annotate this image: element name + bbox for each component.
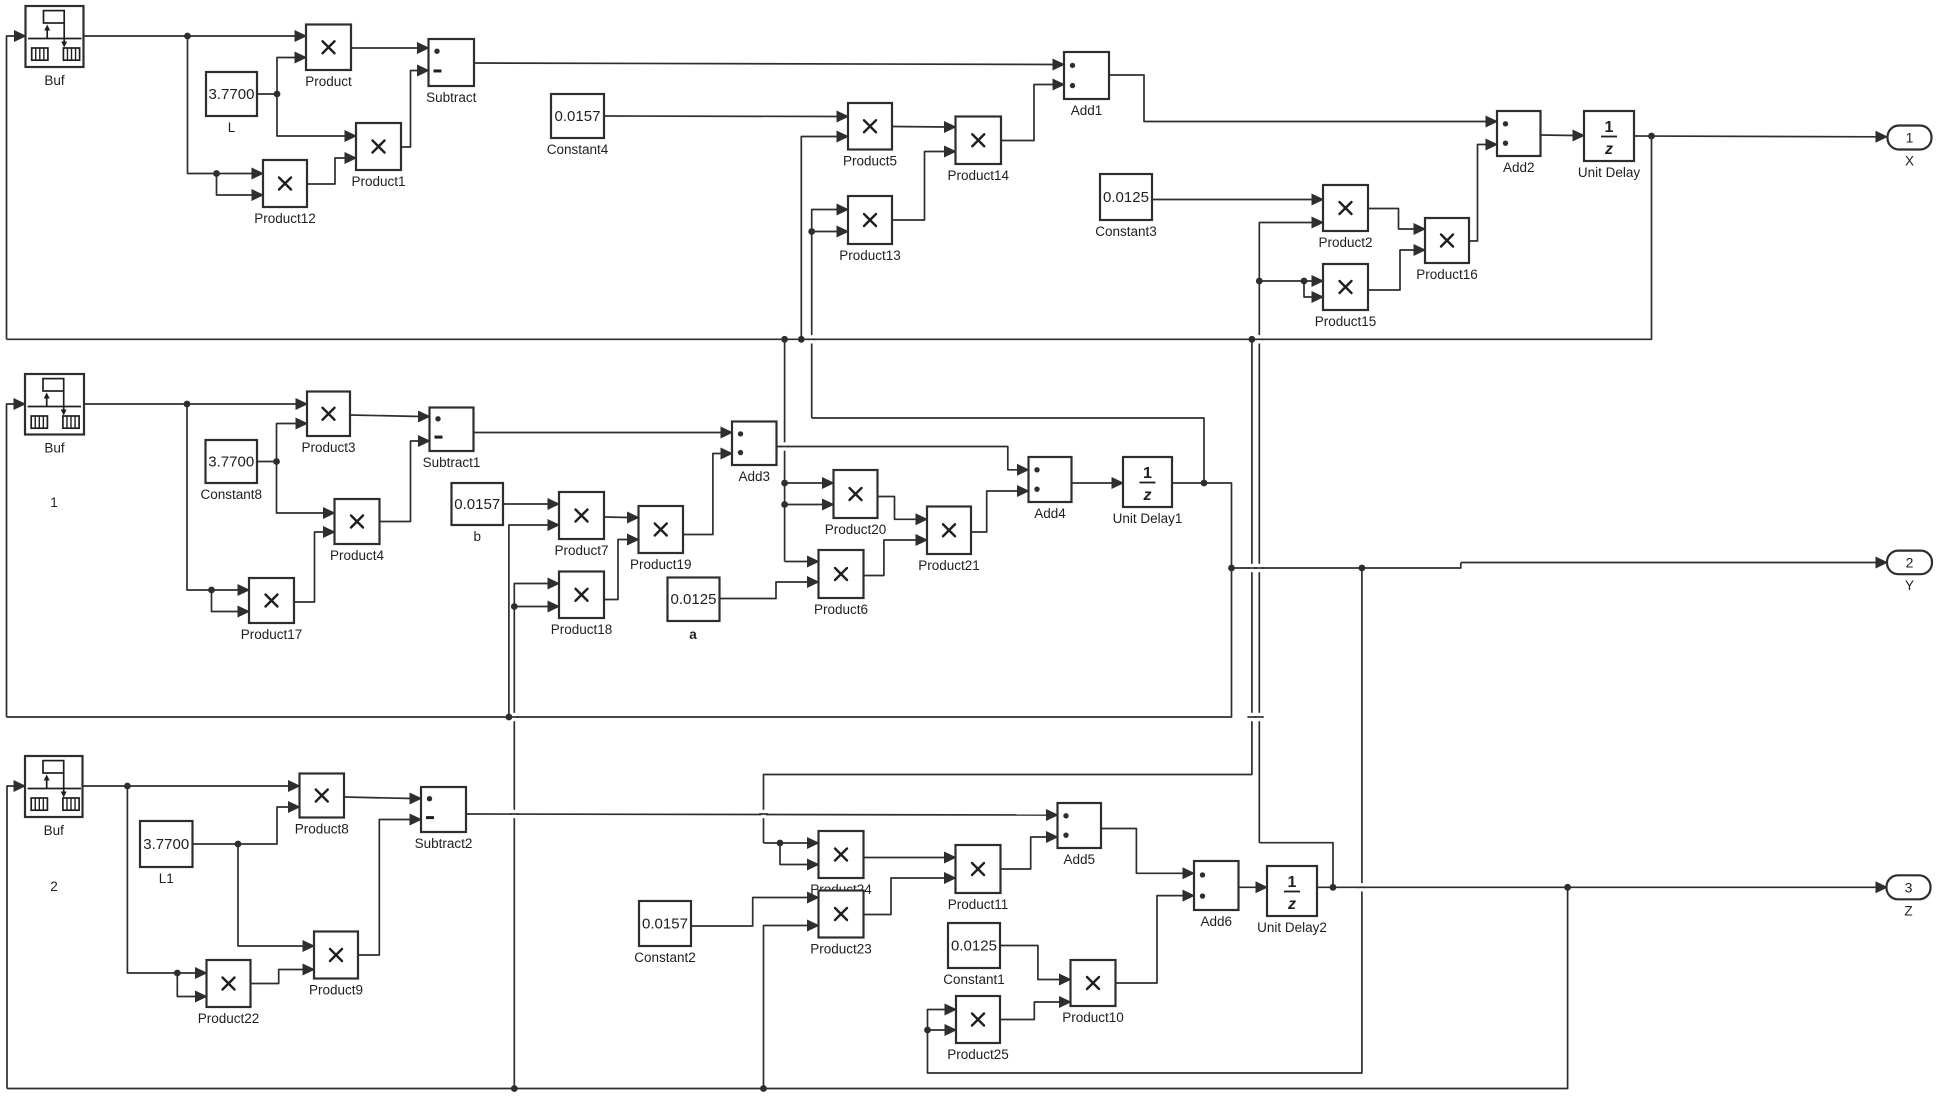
svg-text:L: L: [228, 120, 236, 135]
svg-text:Product16: Product16: [1416, 267, 1478, 282]
svg-text:Product6: Product6: [814, 602, 868, 617]
svg-text:Add5: Add5: [1063, 852, 1095, 867]
svg-text:a: a: [689, 627, 697, 642]
svg-text:Product7: Product7: [554, 543, 608, 558]
svg-text:Product11: Product11: [948, 897, 1009, 912]
svg-text:Product12: Product12: [254, 211, 316, 226]
svg-text:Product25: Product25: [947, 1047, 1009, 1062]
svg-text:Constant4: Constant4: [547, 142, 609, 157]
svg-text:Add2: Add2: [1503, 160, 1535, 175]
svg-text:Buf: Buf: [44, 823, 65, 838]
svg-text:0.0125: 0.0125: [1103, 189, 1149, 206]
svg-text:z: z: [1287, 896, 1296, 913]
svg-text:Subtract: Subtract: [426, 90, 477, 105]
svg-text:Product21: Product21: [918, 558, 980, 573]
svg-text:1: 1: [1143, 465, 1152, 482]
svg-text:Unit Delay: Unit Delay: [1578, 165, 1641, 180]
svg-text:Add1: Add1: [1071, 103, 1103, 118]
svg-text:0.0157: 0.0157: [555, 108, 601, 125]
svg-text:Constant2: Constant2: [634, 950, 696, 965]
svg-text:Product23: Product23: [810, 942, 872, 957]
svg-text:Product3: Product3: [301, 440, 355, 455]
svg-text:0.0157: 0.0157: [454, 496, 500, 513]
svg-text:1: 1: [1906, 130, 1914, 146]
svg-text:3.7700: 3.7700: [209, 86, 255, 103]
svg-text:Product13: Product13: [839, 248, 901, 263]
svg-text:Product14: Product14: [947, 168, 1009, 183]
svg-text:1: 1: [1605, 119, 1614, 136]
svg-text:z: z: [1143, 487, 1152, 504]
svg-text:Buf: Buf: [44, 73, 65, 88]
svg-text:Product: Product: [305, 74, 352, 89]
svg-text:z: z: [1604, 141, 1613, 158]
svg-text:L1: L1: [159, 871, 174, 886]
svg-text:Buf: Buf: [44, 441, 65, 456]
svg-text:b: b: [473, 529, 481, 544]
svg-text:Z: Z: [1904, 903, 1912, 918]
svg-text:1: 1: [50, 495, 58, 510]
svg-text:2: 2: [1906, 554, 1914, 570]
svg-text:Product22: Product22: [198, 1011, 260, 1026]
svg-text:Constant1: Constant1: [943, 972, 1005, 987]
svg-text:X: X: [1905, 154, 1914, 169]
svg-text:Product19: Product19: [630, 557, 692, 572]
svg-text:1: 1: [1288, 874, 1297, 891]
svg-text:Unit Delay1: Unit Delay1: [1113, 511, 1183, 526]
svg-text:Add6: Add6: [1200, 914, 1232, 929]
svg-text:Constant8: Constant8: [200, 487, 262, 502]
svg-text:3.7700: 3.7700: [143, 836, 189, 853]
svg-text:Subtract1: Subtract1: [423, 455, 481, 470]
svg-text:Product4: Product4: [330, 548, 385, 563]
svg-text:3.7700: 3.7700: [208, 454, 254, 471]
svg-text:0.0125: 0.0125: [671, 591, 717, 608]
svg-text:Add4: Add4: [1034, 506, 1066, 521]
svg-text:Subtract2: Subtract2: [415, 836, 473, 851]
svg-text:Product15: Product15: [1315, 314, 1377, 329]
svg-text:Product5: Product5: [843, 154, 897, 169]
svg-text:Product2: Product2: [1318, 235, 1372, 250]
svg-text:Unit Delay2: Unit Delay2: [1257, 920, 1327, 935]
svg-text:Product17: Product17: [241, 627, 303, 642]
svg-text:Product9: Product9: [309, 983, 363, 998]
svg-text:Product8: Product8: [295, 822, 349, 837]
svg-text:Add3: Add3: [738, 469, 770, 484]
svg-text:Product1: Product1: [351, 174, 405, 189]
svg-text:Product18: Product18: [551, 622, 613, 637]
svg-text:2: 2: [50, 879, 58, 894]
svg-text:3: 3: [1905, 879, 1913, 895]
svg-text:0.0157: 0.0157: [642, 916, 688, 933]
svg-text:Y: Y: [1905, 578, 1914, 593]
svg-text:0.0125: 0.0125: [951, 938, 997, 955]
svg-text:Product20: Product20: [825, 522, 887, 537]
svg-text:Product10: Product10: [1062, 1010, 1124, 1025]
svg-text:Constant3: Constant3: [1095, 224, 1157, 239]
